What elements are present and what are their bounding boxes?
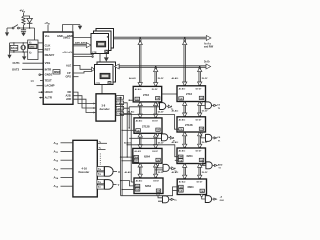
svg-text:T2: T2 (218, 168, 220, 170)
wire U10 bubble to gate (158, 196, 163, 201)
svg-text:A2B: A2B (66, 94, 71, 98)
OE bubble U9 (200, 163, 202, 165)
wire left branch down (6, 28, 8, 32)
svg-text:D0 D7: D0 D7 (153, 181, 159, 183)
wire rail to U10 CE (122, 189, 135, 191)
wire rail to U11 staircase (121, 187, 179, 196)
svg-text:CE: CE (180, 129, 184, 131)
label box Y14 (97, 167, 104, 171)
inter-row bus D row1-2 left (155, 102, 157, 118)
CE box U11 (179, 189, 184, 192)
svg-text:A0 A12: A0 A12 (136, 120, 143, 123)
arrow up at bus A tap 2 (183, 41, 187, 45)
corner pin mark display 1 (107, 36, 108, 37)
svg-text:D0-D7: D0-D7 (158, 78, 164, 80)
wire gate Y output (113, 183, 116, 185)
svg-text:27128: 27128 (185, 123, 193, 127)
svg-text:CAS: CAS (117, 102, 122, 105)
svg-text:4-16: 4-16 (82, 167, 88, 171)
SRAM U10 6264 row4 left (134, 178, 163, 194)
OE box U8 (156, 158, 160, 161)
wire left side of crystal loop (9, 43, 11, 55)
svg-text:A0 A10: A0 A10 (135, 88, 142, 91)
bus MCU to display 1 (73, 44, 86, 46)
arrowhead bus A (206, 36, 211, 41)
wire VB to resistor (23, 13, 25, 16)
inter-row bus D row1-2 right (199, 102, 201, 117)
svg-text:CE: CE (136, 99, 140, 101)
decoder output label CSN (116, 112, 123, 116)
svg-text:CS: CS (217, 105, 221, 107)
vertical bus D to ROM1 (155, 67, 157, 86)
wire gate U6 output (168, 136, 170, 139)
gate X (105, 167, 114, 177)
ground under oscillator (23, 52, 25, 56)
rail CS left pair (121, 97, 123, 195)
svg-text:X2: X2 (29, 53, 32, 55)
wire rail to U7 CE staircase (121, 115, 179, 130)
svg-text:Y15: Y15 (98, 174, 101, 176)
ground at MCU top (78, 26, 82, 30)
EPROM U6 27128 row2 left (134, 118, 162, 133)
node bus A tap 1 (139, 37, 141, 39)
wire decoder pin 1 stub (115, 96, 118, 98)
wire rail to gate U4 (129, 106, 159, 108)
svg-text:D0-D7: D0-D7 (158, 172, 164, 174)
wire top node to diode (24, 16, 30, 18)
OE bubble U8 (157, 164, 159, 166)
svg-text:2716: 2716 (143, 93, 149, 97)
pin stub GND1 (39, 74, 41, 76)
arrow down into ROM2 (183, 82, 187, 86)
CE box U7 (179, 128, 184, 131)
svg-text:6264: 6264 (144, 154, 150, 158)
svg-text:A0 A12: A0 A12 (179, 150, 186, 153)
wire CP stub (73, 72, 92, 74)
crystal bottom rail (10, 51, 28, 53)
svg-text:D0-D7: D0-D7 (202, 78, 208, 80)
svg-text:Decoder: Decoder (79, 170, 90, 174)
svg-text:A0-A10: A0-A10 (172, 77, 179, 80)
OE bubble U5 (200, 102, 202, 104)
svg-text:D0-D7: D0-D7 (202, 172, 208, 174)
OE bubble U11 (201, 194, 203, 196)
svg-text:D0 D7: D0 D7 (197, 182, 203, 184)
OE box U10 (156, 189, 160, 192)
svg-text:INTR: INTR (45, 67, 52, 71)
wire gate U4 output (166, 105, 168, 108)
pin stub HOLD arrow (39, 91, 43, 93)
arrow up at bus D tap 2 (198, 68, 202, 72)
crystal top rail (10, 42, 28, 44)
inter-row bus D row3-4 left (155, 163, 157, 178)
OE box U5 (199, 96, 203, 99)
wire gate U5 output (212, 104, 214, 106)
ellipsis outputs (99, 154, 101, 166)
wire gate U7 output (212, 137, 214, 139)
decoder U3 3-8 (96, 94, 116, 121)
wire reset net to MCU RST pin (35, 28, 44, 50)
LCD display stack 1 front (91, 34, 109, 54)
svg-text:A0 A10: A0 A10 (179, 87, 186, 90)
svg-text:OE: OE (157, 191, 161, 193)
svg-text:T1: T1 (218, 140, 220, 142)
oscillator block U2 (28, 40, 38, 60)
label box Y17 (97, 185, 104, 189)
svg-text:T3: T3 (174, 200, 176, 202)
WE box U8 (134, 156, 139, 159)
label G box display 1 (105, 50, 108, 53)
svg-text:D0 D7: D0 D7 (152, 89, 158, 91)
WE box U11 (179, 185, 184, 188)
wire gate U7 input (201, 135, 206, 138)
svg-text:HOLD: HOLD (45, 90, 53, 94)
junction node at resistor bottom (23, 27, 25, 29)
svg-text:T0: T0 (218, 108, 220, 110)
inter-row bus A row1-2 right (184, 102, 186, 117)
wire rail to U8 WE (121, 156, 134, 158)
svg-text:CE: CE (180, 98, 184, 100)
ground under C1 (21, 33, 26, 37)
gate U6 select (162, 134, 168, 141)
svg-text:6264: 6264 (145, 184, 151, 188)
resistor R1 (22, 16, 25, 28)
inter-row bus A row2-3 right (184, 132, 186, 148)
OE box U6 (156, 128, 160, 131)
gate U8 select (163, 164, 169, 171)
svg-text:CE: CE (135, 161, 139, 163)
svg-text:Y17: Y17 (98, 187, 101, 189)
svg-text:DD: DD (68, 90, 72, 94)
SRAM U11 6864 row4 right (177, 179, 206, 195)
svg-text:6864: 6864 (188, 185, 194, 189)
svg-text:D0 D7: D0 D7 (196, 151, 202, 153)
arrowhead bus D (206, 64, 211, 69)
svg-text:CE: CE (136, 190, 140, 192)
EPROM U4 2716 row1 left (133, 86, 162, 102)
LCD display stack 1 middle (94, 31, 112, 51)
arrow up at bus A tap 1 (138, 41, 142, 45)
switch S1 (12, 27, 14, 29)
svg-text:MM8: MM8 (54, 70, 60, 74)
svg-text:Y: Y (118, 183, 120, 187)
wire gate U8 output (170, 167, 172, 170)
inter-row bus D row2-3 left (155, 133, 157, 148)
gate Y (105, 180, 114, 190)
wire xCL0 to display 1 (73, 53, 92, 55)
address bus A horizontal (114, 37, 207, 39)
wire decoder pin 3 stub (115, 107, 118, 109)
CE box U4 (135, 97, 140, 100)
OE bubble U10 (157, 194, 159, 196)
LCD display stack 2 front (95, 65, 114, 85)
svg-text:Y16: Y16 (98, 182, 101, 184)
wire DD to decoder (73, 92, 93, 103)
junction node at diode bottom (29, 27, 31, 29)
wire SMCLK to bus (73, 36, 91, 38)
svg-text:ADD: ADD (218, 163, 223, 166)
WE box U9 (178, 155, 183, 158)
inter-row bus A row1-2 left (139, 102, 141, 118)
node bus A tap 2 (184, 37, 186, 39)
svg-text:27128: 27128 (142, 124, 150, 128)
data bus D horizontal (119, 66, 207, 68)
CE box U8 (134, 159, 139, 162)
wire decoder pin 4 stub (115, 113, 118, 115)
svg-text:GMS: GMS (117, 98, 123, 100)
svg-text:D0 D7: D0 D7 (152, 121, 158, 123)
decoder U12 4-16 (73, 140, 97, 197)
wire rail to U4 CE (129, 99, 133, 101)
wire rail to U8 CE (122, 160, 134, 162)
svg-text:OUT1: OUT1 (13, 61, 21, 65)
svg-text:CTR: CTR (96, 83, 101, 85)
SRAM U8 6264 row3 left (133, 148, 162, 163)
svg-text:A0-A15: A0-A15 (204, 42, 211, 45)
svg-text:A0-A12: A0-A12 (172, 141, 179, 144)
svg-text:LACMP: LACMP (45, 84, 55, 88)
ground left of switch (5, 32, 9, 36)
svg-text:A0-A12: A0-A12 (172, 171, 179, 174)
wire decoder out3 to rail (124, 107, 130, 128)
wire GND pins rail (63, 25, 81, 32)
EPROM U7 27128 row2 right (177, 117, 206, 132)
arrow down into ROM2 data (198, 82, 202, 86)
svg-text:ALE: ALE (66, 63, 71, 67)
svg-text:CE: CE (137, 130, 141, 132)
wire gate U8 input2 (155, 169, 163, 171)
CE box U10 (135, 188, 140, 191)
wire rail4 to U10 (131, 181, 134, 183)
inter-row bus A row2-3 left (139, 133, 141, 148)
OE bubble U4 (156, 102, 158, 104)
inter-row bus D row3-4 right (199, 164, 201, 180)
MCU chip U1 (43, 32, 73, 104)
LCD glyph display 1 (97, 41, 106, 47)
decoder output label CAS (116, 101, 123, 105)
svg-text:GPS: GPS (66, 75, 72, 79)
wire X1 to MCU (38, 42, 43, 44)
filled arrow into display 2 top (105, 54, 107, 58)
node rail top (120, 97, 121, 98)
node bus D tap 2 (199, 66, 201, 68)
wire rail to U11 CE (173, 190, 179, 192)
EPROM U5 2716 row1 right (177, 86, 206, 102)
svg-text:ALTR: ALTR (45, 95, 52, 99)
inter-row bus A row3-4 right (184, 164, 186, 180)
CE box U6 (136, 129, 141, 132)
svg-text:D0-D7: D0-D7 (158, 142, 164, 144)
wire reset rail (7, 27, 35, 29)
vertical bus A to ROM1 (139, 39, 141, 87)
decoder output label GMS (116, 96, 123, 100)
svg-text:D0-D7: D0-D7 (202, 142, 208, 144)
LCD display stack 2 back (97, 62, 116, 82)
svg-text:OE: OE (156, 98, 160, 100)
label box Y16 (97, 180, 104, 184)
svg-text:A0-A12: A0-A12 (172, 110, 179, 113)
svg-text:D0 D7: D0 D7 (196, 119, 202, 121)
svg-text:xCL0 xCL1: xCL0 xCL1 (63, 52, 74, 54)
wire OUT1 to MCU (23, 62, 44, 64)
svg-text:3-8: 3-8 (102, 104, 106, 108)
junction dots crystal rails (13, 42, 14, 43)
svg-text:OUT2: OUT2 (12, 67, 20, 71)
label G box display 2 (108, 82, 111, 85)
svg-text:G: G (106, 51, 108, 53)
inter-row bus D row2-3 right (199, 132, 201, 148)
svg-text:CTR: CTR (92, 52, 97, 54)
wire gate U11 output (212, 198, 214, 200)
svg-text:RST: RST (45, 48, 51, 52)
wire U4 CE link (162, 93, 177, 95)
gate U10 select (163, 196, 169, 203)
gate U4 select (160, 103, 166, 110)
svg-text:decoder: decoder (100, 107, 110, 111)
wire A2B to decoder (73, 96, 93, 108)
label box Y15 (97, 172, 104, 176)
svg-text:A0 A12: A0 A12 (136, 180, 143, 183)
arrow down into ROM1 data (154, 83, 158, 87)
pin stub ALTR arrow out (40, 97, 44, 99)
svg-text:xDD: xDD (66, 97, 71, 101)
svg-text:A0 A12: A0 A12 (179, 181, 186, 184)
OE bubble U6 (156, 133, 158, 135)
svg-text:CE: CE (179, 191, 183, 193)
gate U5 select (205, 102, 211, 109)
svg-text:OE: OE (201, 191, 205, 193)
open arrow into display 2 right (115, 64, 120, 69)
ground crystal left (7, 55, 11, 59)
wire xCL1 to display 1 (73, 56, 92, 58)
arrow down into ROM1 (138, 83, 142, 87)
wire gate U9 output (213, 164, 215, 166)
LCD display stack 1 back (96, 29, 114, 49)
svg-text:CS: CS (217, 137, 221, 139)
CE box U9 (178, 159, 183, 162)
wire OUT2 to MCU (22, 68, 43, 70)
capacitor C1 (21, 28, 26, 33)
diode D1 (27, 18, 33, 28)
wire decoder out2 to rail (124, 103, 128, 157)
wire U8 bubble to gate (158, 166, 163, 168)
trimmer capacitor CT (21, 45, 26, 50)
CE box U5 (179, 97, 184, 100)
wire rail to U9 CE (175, 159, 179, 161)
wire gate U10 output (169, 198, 171, 200)
arrow up at bus D tap 1 (154, 68, 158, 72)
decoder output label DS (116, 106, 123, 110)
wire display1 to display2 (99, 54, 101, 63)
wire xDD to decoder (73, 99, 93, 112)
svg-text:6264: 6264 (187, 154, 193, 158)
svg-text:CP: CP (67, 71, 71, 75)
wire decoder out4 to rail (124, 114, 132, 182)
OE box U9 (199, 158, 203, 161)
WE box U10 (135, 184, 140, 187)
crystal Y1 32kHz box (10, 45, 18, 50)
internal mode box MM8 (53, 70, 60, 74)
svg-text:A0 A12: A0 A12 (134, 150, 141, 153)
svg-text:D0-D7: D0-D7 (202, 111, 208, 113)
inter-row bus A row3-4 left (139, 163, 141, 178)
svg-text:and R/W: and R/W (204, 47, 214, 49)
SRAM U9 6264 row3 right (177, 148, 206, 164)
svg-text:D0-D7: D0-D7 (158, 112, 164, 114)
svg-text:GND1: GND1 (45, 73, 53, 77)
svg-text:OE: OE (200, 129, 204, 131)
svg-text:D0-D7: D0-D7 (204, 61, 210, 63)
wire rail to U10 WE staircase (121, 181, 136, 186)
svg-text:A0-A12: A0-A12 (128, 111, 135, 114)
wire rail to U9 staircase (127, 145, 178, 157)
vertical bus D to ROM2 (199, 67, 201, 86)
OE bubble U7 (200, 132, 202, 134)
svg-text:X: X (118, 170, 120, 174)
wire rail to U6 CE (122, 129, 136, 131)
open arrow into display 1 (86, 43, 91, 48)
LCD glyph display 2 (100, 73, 110, 78)
wire gate X output (113, 170, 117, 172)
wire rail to gate U6 (129, 137, 161, 139)
svg-text:D0 D7: D0 D7 (152, 151, 158, 153)
gate U7 select (206, 134, 212, 141)
vertical bus A to ROM2 (184, 39, 186, 86)
svg-text:G: G (109, 83, 111, 85)
svg-text:SMCL: SMCL (63, 35, 71, 39)
wire gate U9 input (201, 161, 206, 165)
svg-text:TEST: TEST (45, 78, 52, 82)
svg-text:D0 D7: D0 D7 (196, 88, 202, 90)
wire ALE to display 2 (73, 65, 92, 69)
wire display2 to decoder top (101, 85, 103, 94)
svg-text:READY: READY (45, 53, 55, 57)
OE box U11 (200, 189, 204, 192)
OE box U7 (199, 127, 203, 130)
svg-text:A0-A12: A0-A12 (125, 171, 132, 174)
svg-text:CE: CE (179, 160, 183, 162)
svg-text:2716: 2716 (186, 92, 192, 96)
svg-text:OE: OE (157, 130, 161, 132)
svg-text:A0-A12: A0-A12 (124, 141, 131, 144)
gate U11 select (205, 196, 211, 203)
wire gate U5 input (201, 104, 205, 106)
svg-text:OSC: OSC (30, 47, 35, 49)
svg-text:32kHz: 32kHz (11, 47, 19, 50)
open arrow into display 2 (92, 67, 95, 71)
gate U9 select (206, 162, 212, 169)
wire gate U11 input (202, 196, 206, 199)
svg-text:A0-A10: A0-A10 (129, 77, 136, 80)
node bus D tap 1 (155, 66, 157, 68)
svg-text:GND: GND (57, 34, 63, 38)
OE box U4 (156, 97, 160, 100)
wire X2 to MCU (38, 51, 43, 53)
svg-text:OE: OE (200, 98, 204, 100)
svg-text:OE: OE (157, 160, 161, 162)
pin stub TEST (40, 80, 43, 82)
oscillator inner OSC box (29, 44, 37, 48)
wire decoder pin 2 stub (115, 102, 118, 104)
svg-text:VSS: VSS (45, 61, 51, 65)
svg-text:A0 A12: A0 A12 (179, 118, 186, 121)
